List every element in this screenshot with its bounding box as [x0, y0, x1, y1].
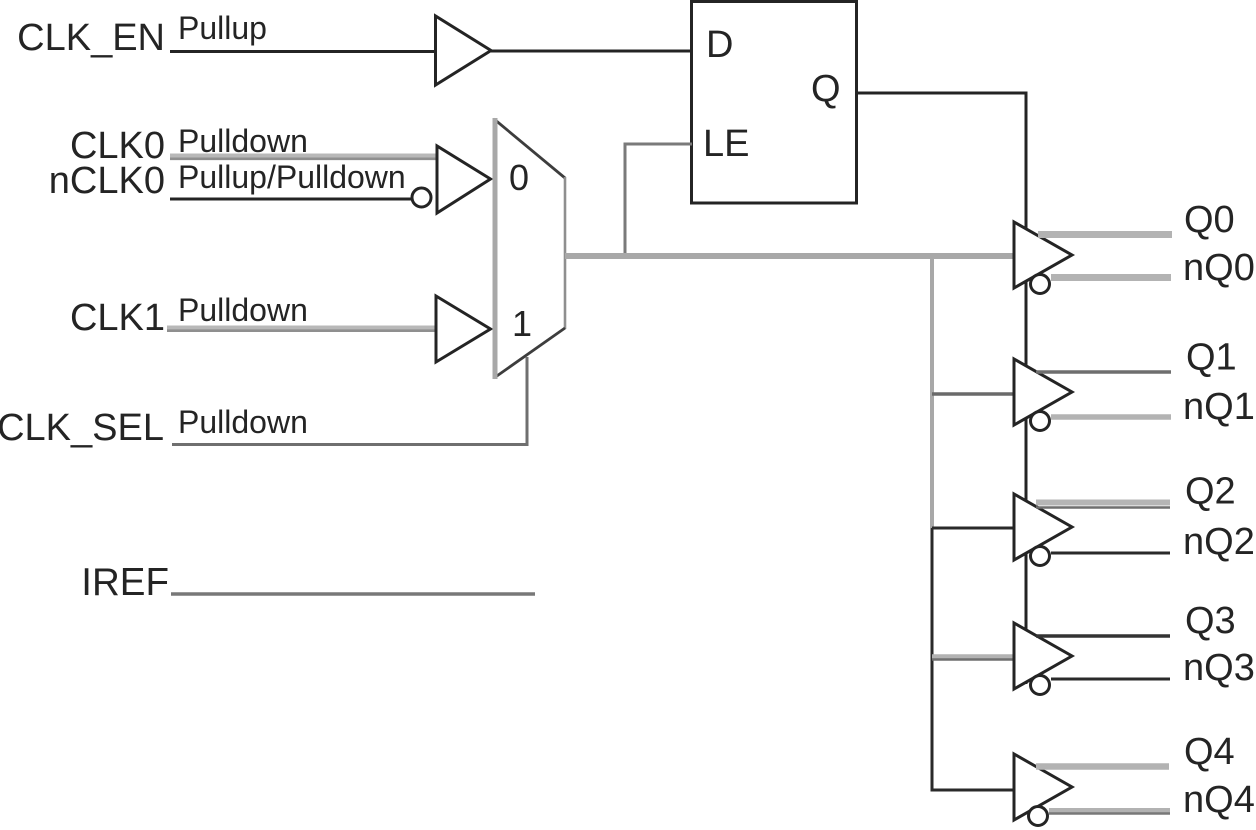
wire nQ4 output [1049, 811, 1170, 814]
wire feed to buffer B1 [932, 392, 1014, 396]
node Q3 label [1185, 600, 1236, 642]
svg-text:Q4: Q4 [1184, 731, 1235, 773]
wire CLK_EN input [170, 50, 436, 53]
buffer U1 (CLK_EN) [436, 16, 492, 85]
svg-text:CLK_SEL: CLK_SEL [0, 407, 164, 449]
wire nQ3 output [1051, 678, 1170, 681]
wire IREF stub [171, 592, 535, 596]
node Q4 label [1184, 731, 1235, 773]
wire nCLK0 input [170, 198, 411, 201]
mux M1 body [494, 118, 565, 379]
svg-text:Pullup/Pulldown: Pullup/Pulldown [178, 159, 406, 195]
svg-text:IREF: IREF [81, 561, 169, 604]
label Pulldown (CLK1) [178, 292, 308, 328]
svg-text:nQ2: nQ2 [1183, 521, 1255, 563]
node nCLK0 label [49, 160, 165, 202]
node nQ1 label [1183, 386, 1255, 428]
inverting bubble B2 [1031, 547, 1050, 566]
mux port label 1 [512, 303, 532, 344]
node Q0 label [1184, 199, 1235, 241]
svg-text:Q2: Q2 [1185, 471, 1236, 513]
svg-text:nQ3: nQ3 [1183, 647, 1255, 689]
svg-text:Q1: Q1 [1186, 337, 1237, 379]
node nQ3 label [1183, 647, 1255, 689]
buffer U2 (CLK0/nCLK0 differential) [437, 146, 491, 213]
node CLK1 label [70, 297, 165, 339]
inverting bubble on nCLK0 input of buffer U2 [412, 188, 431, 207]
mux port label 0 [509, 157, 529, 198]
wire Q4 output [1036, 763, 1169, 770]
wire Q2 output [1036, 503, 1170, 508]
svg-text:1: 1 [512, 303, 532, 344]
output buffer B4 [1014, 754, 1072, 820]
svg-text:0: 0 [509, 157, 529, 198]
wire mux output to LE [625, 144, 692, 254]
label Pulldown (CLK_SEL) [178, 404, 308, 440]
wire nQ2 output [1051, 552, 1170, 555]
wire CLK0 input [170, 156, 437, 159]
latch pin label D [706, 24, 733, 66]
latch pin label Q [811, 68, 841, 110]
inverting bubble B4 [1029, 807, 1048, 826]
svg-text:nCLK0: nCLK0 [49, 160, 165, 202]
output buffer B2 [1014, 494, 1072, 560]
output buffer B0 [1014, 222, 1072, 288]
buffer U3 (CLK1) [436, 296, 491, 362]
wire CLK1 input [167, 328, 437, 331]
node Q1 label [1186, 337, 1237, 379]
svg-text:nQ4: nQ4 [1183, 779, 1255, 821]
wire nQ0 output [1051, 274, 1171, 281]
wire latch Q to enable rail [856, 93, 1026, 684]
latch pin label LE [703, 123, 749, 165]
svg-text:nQ1: nQ1 [1183, 386, 1255, 428]
wire buffer U1 output to D [491, 50, 692, 53]
wire feed to buffer B2 [932, 527, 1014, 530]
wire CLK_SEL to mux select [172, 357, 527, 445]
wire main clock bus (mux output) [565, 253, 1014, 259]
svg-text:Pullup: Pullup [178, 10, 267, 46]
inverting bubble B0 [1031, 275, 1050, 294]
svg-text:Q0: Q0 [1184, 199, 1235, 241]
node CLK_EN label [17, 17, 165, 59]
svg-text:Pulldown: Pulldown [178, 292, 308, 328]
output buffer B1 [1014, 359, 1072, 425]
svg-text:D: D [706, 24, 733, 66]
wire feed to buffer B3 [932, 657, 1014, 660]
node nQ0 label [1183, 247, 1255, 289]
svg-text:nQ0: nQ0 [1183, 247, 1255, 289]
wire vertical distribution bus (black lower) [931, 528, 934, 792]
label Pulldown (CLK0) [178, 123, 308, 159]
svg-text:Q3: Q3 [1185, 600, 1236, 642]
svg-text:Pulldown: Pulldown [178, 404, 308, 440]
latch U4 box [692, 2, 857, 204]
node Q2 label [1185, 471, 1236, 513]
inverting bubble B3 [1031, 676, 1050, 695]
wire Q0 output [1038, 231, 1172, 238]
svg-text:Q: Q [811, 68, 841, 110]
node CLK0 label [70, 125, 165, 167]
svg-text:CLK_EN: CLK_EN [17, 17, 165, 59]
svg-text:LE: LE [703, 123, 749, 165]
label Pullup/Pulldown (nCLK0) [178, 159, 406, 195]
inverting bubble B1 [1031, 412, 1050, 431]
node CLK_SEL label [0, 407, 164, 449]
svg-text:CLK1: CLK1 [70, 297, 165, 339]
node nQ4 label [1183, 779, 1255, 821]
output buffer B3 [1014, 623, 1072, 689]
node nQ2 label [1183, 521, 1255, 563]
wire nQ1 output [1051, 414, 1171, 420]
wire feed to buffer B4 [932, 789, 1014, 792]
wire vertical distribution bus (gray upper) [930, 256, 934, 528]
node IREF label [81, 561, 169, 604]
wire Q1 output [1036, 370, 1171, 374]
wire Q3 output [1036, 634, 1170, 638]
label Pullup (CLK_EN) [178, 10, 267, 46]
